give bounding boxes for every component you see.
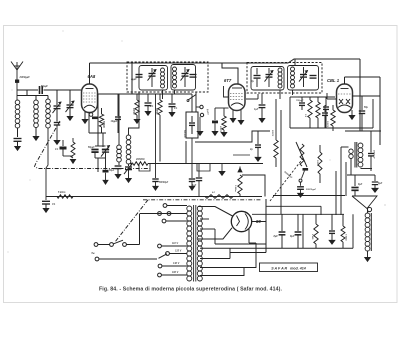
svg-text:10000: 10000 — [132, 108, 134, 115]
svg-text:2µ: 2µ — [250, 80, 254, 83]
svg-text:50µµF: 50µµF — [88, 147, 95, 149]
svg-text:50000: 50000 — [271, 130, 273, 137]
svg-text:50µF: 50µF — [109, 170, 115, 172]
svg-text:20000: 20000 — [219, 125, 221, 133]
svg-text:6A8: 6A8 — [88, 74, 96, 79]
svg-text:10µµF: 10µµF — [111, 120, 118, 123]
svg-text:2000µµF: 2000µµF — [19, 75, 31, 79]
svg-text:8µF: 8µF — [290, 235, 295, 238]
svg-text:8µF: 8µF — [274, 235, 279, 238]
svg-text:125 V: 125 V — [175, 250, 182, 253]
svg-text:50µµF: 50µµF — [41, 85, 48, 88]
svg-text:50000µµF: 50000µµF — [306, 189, 317, 191]
svg-text:0.5Mm: 0.5Mm — [234, 185, 236, 192]
svg-text:10000: 10000 — [316, 160, 318, 167]
svg-text:500000: 500000 — [183, 130, 185, 138]
svg-text:S A F A R mod. 414: S A F A R mod. 414 — [271, 266, 305, 270]
svg-text:5 kΩm: 5 kΩm — [58, 191, 66, 194]
svg-text:1µF: 1µF — [254, 108, 259, 111]
svg-text:C1: C1 — [52, 202, 56, 206]
svg-text:50000µF: 50000µF — [159, 182, 169, 184]
svg-text:6µF: 6µF — [378, 182, 383, 185]
svg-text:5 MΩ: 5 MΩ — [311, 234, 313, 240]
svg-text:2000µµF: 2000µµF — [373, 149, 375, 159]
svg-text:50000: 50000 — [155, 108, 157, 115]
svg-text:20000Ω: 20000Ω — [135, 158, 145, 161]
svg-text:50µ: 50µ — [364, 107, 369, 109]
svg-text:0.5MΩ: 0.5MΩ — [345, 234, 347, 241]
svg-text:160 V: 160 V — [172, 271, 179, 274]
svg-text:Fig. 84. - Schema di moderna: Fig. 84. - Schema di moderna piccola sup… — [99, 287, 283, 293]
svg-text:8µF: 8µF — [358, 183, 363, 186]
svg-text:700µµF: 700µµF — [296, 100, 304, 102]
svg-text:50000: 50000 — [102, 121, 105, 128]
svg-text:140 V: 140 V — [173, 262, 180, 265]
svg-text:110 V: 110 V — [172, 242, 178, 245]
svg-text:2µµF: 2µµF — [130, 78, 137, 81]
svg-text:1µF: 1µF — [192, 184, 197, 187]
svg-text:~: ~ — [91, 251, 95, 258]
svg-text:6T7: 6T7 — [224, 78, 232, 83]
svg-text:CBL 1: CBL 1 — [327, 78, 340, 83]
